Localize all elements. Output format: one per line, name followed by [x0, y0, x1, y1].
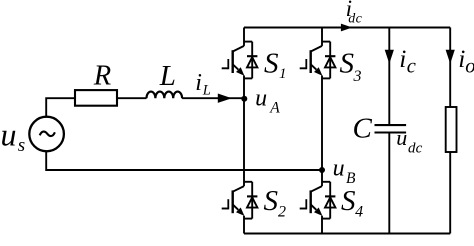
diode D1: triangle (pointing up)	[247, 57, 257, 67]
wire: top dc rail	[244, 27, 450, 29]
IGBT S2: gate lead	[222, 208, 229, 210]
wire: right leg middle segment through node B	[321, 76, 323, 187]
IGBT S3: collector lead and jog to diode	[322, 41, 330, 43]
label C	[353, 112, 373, 144]
svg-text:3: 3	[353, 68, 362, 85]
wire: load branch lower	[449, 152, 451, 234]
inductor L: 4 humps	[147, 92, 183, 99]
label i_c	[399, 44, 416, 78]
diode D1: cathode bar	[247, 55, 257, 57]
diode D2: triangle (pointing up)	[247, 197, 257, 207]
wire: load branch upper	[449, 28, 451, 108]
IGBT S2: emitter line	[233, 205, 239, 210]
svg-text:u: u	[255, 86, 267, 112]
diode D2 (antiparallel with S2): vertical wire	[251, 182, 253, 219]
svg-text:i: i	[458, 44, 465, 73]
IGBT S2: gate bar	[227, 199, 229, 209]
IGBT S1: emitter arrowhead	[236, 67, 244, 75]
IGBT S4: body bar	[310, 190, 312, 213]
wire: bottom dc rail	[244, 233, 450, 235]
svg-text:R: R	[93, 61, 111, 92]
IGBT S3: gate bar	[305, 59, 307, 69]
label S2	[264, 185, 287, 221]
wire: right leg top segment	[321, 28, 323, 46]
IGBT S1: collector diagonal	[233, 46, 244, 52]
AC source u_s: circle	[29, 117, 64, 152]
current arrow i_o	[446, 50, 455, 64]
node B junction dot	[319, 167, 325, 173]
svg-text:i: i	[399, 44, 406, 73]
IGBT S2: body bar	[231, 190, 233, 213]
svg-text:S: S	[340, 48, 355, 80]
wire: capacitor branch lower	[388, 133, 390, 234]
svg-text:S: S	[341, 185, 356, 217]
IGBT S2: collector diagonal	[233, 186, 244, 192]
IGBT S4: gate lead	[300, 208, 307, 210]
wire: source bottom lead down and right to node B	[46, 151, 322, 170]
svg-text:c: c	[356, 12, 363, 27]
svg-text:2: 2	[278, 204, 286, 221]
label i_o	[458, 44, 474, 78]
IGBT S4: emitter line	[311, 205, 317, 210]
diode D3: triangle (pointing up)	[325, 57, 335, 67]
wire: inductor to node A	[182, 97, 244, 99]
AC source u_s: sine symbol	[40, 132, 55, 136]
wire: resistor to inductor	[117, 97, 147, 99]
IGBT S4: emitter arrowhead	[314, 208, 322, 216]
diode D3: cathode bar	[325, 55, 335, 57]
wire: source top lead up and right to resistor	[46, 98, 75, 117]
wire: diode D2 bottom jog to emitter	[244, 218, 252, 220]
IGBT S4: gate bar	[305, 199, 307, 209]
svg-text:u: u	[333, 156, 345, 182]
svg-text:c: c	[407, 56, 416, 78]
wire: diode D1 bottom jog to emitter	[244, 77, 252, 79]
svg-text:L: L	[202, 82, 211, 98]
IGBT S1: gate bar	[227, 59, 229, 69]
svg-text:S: S	[264, 47, 279, 79]
svg-text:L: L	[159, 60, 176, 92]
svg-text:B: B	[346, 170, 356, 187]
diode D3 (antiparallel with S3): vertical wire	[329, 42, 331, 79]
diode D1 (antiparallel with S1): vertical wire	[251, 42, 253, 79]
wire: diode D4 bottom jog to emitter	[322, 218, 330, 220]
IGBT S3: emitter line	[311, 64, 317, 69]
IGBT S1: collector lead and jog to diode	[244, 41, 252, 43]
svg-text:c: c	[416, 140, 423, 156]
svg-text:o: o	[465, 56, 474, 78]
IGBT S2: collector lead and jog to diode	[244, 181, 252, 183]
svg-text:A: A	[269, 99, 280, 116]
svg-text:1: 1	[279, 66, 287, 82]
svg-text:C: C	[353, 112, 373, 144]
diode D4: cathode bar	[325, 195, 335, 197]
label R	[93, 61, 111, 92]
label u_B	[333, 156, 356, 187]
current arrow i_c	[385, 50, 394, 64]
IGBT S4: collector diagonal	[311, 186, 322, 192]
resistor R	[75, 90, 117, 106]
svg-text:s: s	[18, 135, 25, 156]
wire: right leg bottom segment	[321, 216, 323, 234]
wire: left leg bottom segment	[243, 216, 245, 234]
wire: left leg top segment	[243, 28, 245, 46]
current arrow i_dc	[341, 24, 352, 32]
IGBT S3: emitter arrowhead	[314, 67, 322, 75]
wire: left leg middle segment through node A	[243, 76, 245, 187]
IGBT S1: emitter line	[233, 64, 239, 69]
IGBT S2: emitter arrowhead	[236, 208, 244, 216]
capacitor C: bottom plate	[375, 131, 407, 133]
capacitor C: top plate	[375, 124, 407, 126]
label u_s	[1, 116, 26, 156]
wire: diode D3 bottom jog to emitter	[322, 77, 330, 79]
label i_L	[195, 70, 211, 99]
IGBT S3: collector diagonal	[311, 46, 322, 52]
label S4	[341, 185, 363, 221]
diode D4: triangle (pointing up)	[325, 197, 335, 207]
IGBT S1: body bar	[231, 50, 233, 73]
svg-text:4: 4	[355, 204, 363, 221]
svg-text:u: u	[1, 116, 17, 152]
IGBT S3: body bar	[310, 50, 312, 73]
svg-text:u: u	[396, 125, 407, 150]
diode D2: cathode bar	[247, 195, 257, 197]
label u_A	[255, 86, 280, 117]
diode D4 (antiparallel with S4): vertical wire	[329, 182, 331, 219]
label S3	[340, 48, 362, 85]
wire: capacitor branch upper	[388, 28, 390, 126]
current arrow i_L	[218, 94, 232, 103]
node A junction dot	[241, 96, 247, 102]
label u_dc	[396, 125, 422, 157]
IGBT S3: gate lead	[300, 67, 307, 69]
svg-text:S: S	[264, 185, 279, 217]
svg-text:i: i	[195, 70, 202, 96]
IGBT S4: collector lead and jog to diode	[322, 181, 330, 183]
label S1	[264, 47, 287, 82]
label L	[159, 60, 176, 92]
label i_dc	[346, 0, 363, 27]
IGBT S1: gate lead	[222, 67, 229, 69]
load resistor box	[446, 107, 457, 152]
